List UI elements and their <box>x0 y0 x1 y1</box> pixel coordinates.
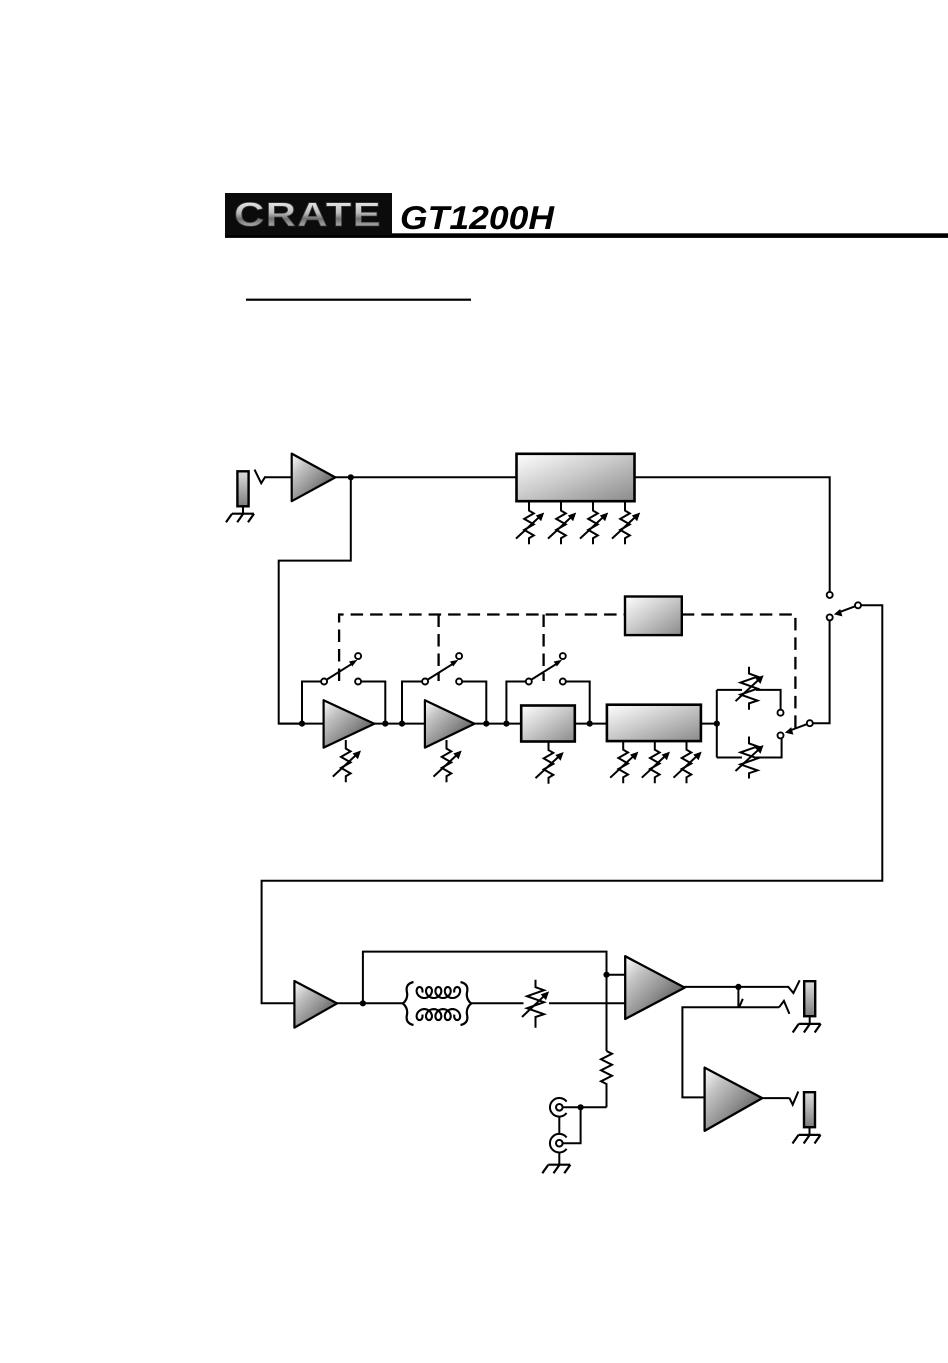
op-amp U6 (headphone amp) <box>705 1068 763 1131</box>
CRATE logo box <box>225 193 392 235</box>
control line (dashed drop S3) <box>437 615 439 682</box>
potentiometer (effect 2) <box>642 741 670 783</box>
wire (driver output) <box>336 1002 404 1004</box>
EQ block <box>517 454 635 501</box>
switch S1 contact bottom <box>827 614 833 620</box>
wire (speaker jack to ground) <box>809 1016 811 1024</box>
wire (S5 common to channel switch) <box>813 621 829 723</box>
speaker jack NC contact tick <box>739 999 743 1008</box>
svg-text:GT1200H: GT1200H <box>400 199 555 236</box>
wire (channel switch to power amp section) <box>262 605 883 1003</box>
switch S4 (reverb bypass) <box>526 653 566 684</box>
wire (buffer to EQ block) <box>335 476 517 478</box>
potentiometer (channel B level) <box>736 737 764 779</box>
wire (transformer to master volume) <box>472 1002 524 1004</box>
wire (RCA 2 shell to ground) <box>558 1153 560 1165</box>
node I (driver output junction) <box>360 1000 366 1006</box>
wire (direct feed to power amp) <box>363 952 607 1051</box>
switch S1 arm <box>834 606 855 616</box>
control line (dashed bus) <box>339 615 795 732</box>
speaker jack <box>804 981 815 1016</box>
node D (stage 2 input junction) <box>399 721 405 727</box>
control line (dashed drop S4) <box>542 615 544 682</box>
op-amp U4 (power amp driver) <box>294 981 337 1028</box>
switch S5 contact B <box>778 732 784 738</box>
node J (power amp input junction) <box>603 972 609 978</box>
switch S3 (stage 2 bypass) <box>422 653 462 684</box>
op-amp U1 input buffer <box>292 454 336 502</box>
resistor R1 (line out) <box>601 1051 612 1107</box>
wire (top stub into power amp) <box>607 974 627 976</box>
potentiometer (gain 1) <box>333 740 361 782</box>
switch S5 (FX select) contact T <box>778 710 784 716</box>
node H (level pots junction) <box>714 721 720 727</box>
wire (node A down to overdrive chain) <box>279 477 351 723</box>
switch S5 common <box>807 720 813 726</box>
node F (reverb input junction) <box>503 721 509 727</box>
transformer T1 primary coil <box>417 987 461 998</box>
ground (speaker jack) <box>793 1024 821 1033</box>
op-amp U2 (gain stage 1) <box>324 700 375 747</box>
transformer T1 right brace <box>461 982 472 1025</box>
phones jack tip contact <box>789 1092 798 1105</box>
wire (jack to buffer amp) <box>264 476 293 478</box>
wire (junction to RCA 2) <box>563 1107 581 1143</box>
transformer T1 left brace <box>403 982 414 1025</box>
wire (reverb bypass loop left) <box>506 682 525 724</box>
header rule bar <box>225 233 948 238</box>
node G <box>587 721 593 727</box>
potentiometer VR1 (EQ band 1) <box>516 502 544 544</box>
potentiometer (effect 1) <box>610 741 638 783</box>
wire (stage 2 bypass loop left) <box>402 682 422 724</box>
input jack J1 <box>237 471 248 506</box>
wire jack sleeve to ground <box>242 506 244 513</box>
node B (stage 1 input junction) <box>299 721 305 727</box>
wire (stage 1 bypass loop right) <box>362 682 386 724</box>
potentiometer (effect 3) <box>674 741 702 783</box>
potentiometer VR3 (EQ band 3) <box>580 502 608 544</box>
jack tip switch contact <box>255 470 265 484</box>
wire (EQ output to channel switch) <box>635 477 830 591</box>
speaker jack tip contact <box>788 980 800 993</box>
ground (input jack) <box>226 514 254 523</box>
switch S2 (stage 1 bypass) <box>321 653 361 684</box>
op-amp U5 (power amp) <box>625 956 685 1019</box>
switch S1 common <box>855 602 861 608</box>
wire (power amp output) <box>684 986 788 988</box>
headphone feed NC contact <box>779 1001 789 1014</box>
wire (jack NC arm drop) <box>737 987 739 1007</box>
wire (level pots bracket) <box>717 690 782 758</box>
potentiometer (gain 2) <box>434 740 462 782</box>
RCA jack 1 (line out L) <box>550 1098 567 1117</box>
wire (R1 to RCA jacks) <box>563 1106 607 1108</box>
potentiometer VR4 (EQ band 4) <box>612 502 640 544</box>
section heading underline <box>246 299 471 301</box>
potentiometer (master volume) <box>522 980 549 1028</box>
wire (reverb bypass loop right) <box>565 682 590 724</box>
wire (RCA shells link) <box>558 1117 560 1134</box>
wire (headphone amp output) <box>762 1097 790 1099</box>
svg-text:CRATE: CRATE <box>234 196 382 234</box>
ground (phones jack) <box>793 1135 821 1144</box>
effects block <box>607 705 701 741</box>
wire (stage 2 bypass loop right) <box>463 682 487 724</box>
potentiometer (reverb level) <box>536 742 564 784</box>
relay block K1 <box>625 597 682 636</box>
switch S5 arm <box>785 724 807 734</box>
ground (RCA jacks) <box>542 1165 570 1174</box>
node A (buffer output junction) <box>348 474 354 480</box>
reverb block <box>521 706 575 742</box>
node C <box>382 721 388 727</box>
wire (phones jack to ground) <box>809 1127 811 1135</box>
switch S1 (channel select) contact top <box>827 592 833 598</box>
potentiometer VR2 (EQ band 2) <box>548 502 576 544</box>
potentiometer (channel A level) <box>736 667 764 710</box>
op-amp U3 (gain stage 2) <box>425 700 475 747</box>
phones jack <box>804 1092 815 1127</box>
node E <box>483 721 489 727</box>
wire (headphone feed) <box>682 1007 779 1097</box>
node K (speaker output junction) <box>735 984 741 990</box>
wire (stage 1 bypass loop) <box>302 682 321 724</box>
node L (line out junction) <box>578 1104 584 1110</box>
RCA jack 2 (line out R) <box>550 1134 567 1153</box>
wire (master volume to power amp) <box>549 1002 626 1004</box>
wire (channel chain bus) <box>279 723 717 725</box>
transformer T1 secondary coil <box>417 1009 461 1020</box>
